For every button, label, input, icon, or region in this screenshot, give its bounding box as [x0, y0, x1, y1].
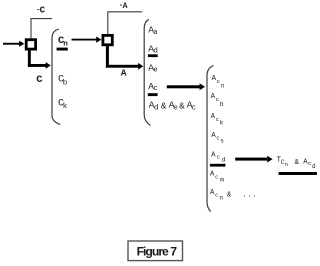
- node C_k: [58, 98, 68, 111]
- node A_c_b: [211, 93, 224, 108]
- svg-text:...: ...: [242, 192, 257, 200]
- svg-text:a: a: [153, 29, 157, 37]
- svg-text:c: c: [308, 160, 311, 167]
- node A_c_n: [212, 75, 225, 90]
- arrow into box 1: [3, 41, 24, 47]
- svg-text:s: s: [220, 137, 224, 144]
- node A_c_d (underlined): [210, 152, 226, 167]
- svg-text:&: &: [295, 159, 300, 167]
- bracket 1 (open paren): [52, 29, 60, 124]
- svg-text:&: &: [227, 191, 232, 199]
- svg-text:n: n: [285, 162, 288, 168]
- label -A: [119, 2, 128, 11]
- node A_c_k: [211, 113, 224, 127]
- svg-text:&: &: [161, 101, 167, 111]
- svg-text:c: c: [217, 78, 220, 85]
- node C_n (bold, underlined): [57, 35, 69, 51]
- svg-text:e: e: [153, 67, 157, 75]
- node A_c_s: [211, 132, 224, 144]
- node A_c (underlined): [148, 81, 158, 96]
- svg-text:k: k: [220, 119, 224, 126]
- bracket 3 (open paren): [207, 66, 213, 212]
- wire L from box 1 bottom with arrowhead into bracket 1, label C: [28, 50, 51, 69]
- svg-text:d: d: [153, 47, 158, 55]
- arrow from A_c_d to result: [235, 156, 272, 163]
- svg-text:Figure 7: Figure 7: [137, 245, 178, 259]
- svg-text:n: n: [221, 83, 225, 90]
- svg-text:n: n: [63, 40, 68, 48]
- wire L from box 2 bottom with arrowhead into bracket 2, label A: [106, 46, 143, 69]
- svg-text:c: c: [153, 85, 157, 93]
- svg-text:c: c: [192, 105, 196, 113]
- node A_d (underlined): [148, 43, 158, 57]
- svg-text:m: m: [220, 177, 224, 184]
- node C_b: [58, 75, 68, 88]
- svg-text:c: c: [216, 96, 219, 103]
- bracket 2 (open paren): [144, 19, 150, 125]
- box 1 (process node): [25, 38, 37, 50]
- result label T_C_n & A_c_d (underlined): [277, 157, 317, 175]
- svg-text:e: e: [174, 104, 178, 112]
- node A_e: [148, 62, 157, 74]
- arrow from bracket 2 to bracket 3: [167, 83, 205, 90]
- svg-text:A: A: [123, 2, 128, 11]
- figure caption box: [128, 241, 183, 261]
- svg-text:c: c: [215, 191, 218, 198]
- node A_c_m: [210, 171, 224, 184]
- svg-text:d: d: [312, 163, 316, 170]
- node A_c_n & ...: [210, 189, 257, 202]
- svg-text:c: c: [216, 116, 219, 123]
- svg-text:c: c: [217, 154, 220, 161]
- node A_a: [148, 25, 157, 37]
- svg-text:n: n: [219, 195, 223, 202]
- wire from box 2 top to -A label line: [108, 12, 142, 34]
- svg-text:d: d: [222, 156, 226, 163]
- svg-text:A: A: [121, 68, 127, 79]
- arrow from C_n into box 2: [72, 37, 102, 43]
- svg-text:A: A: [211, 152, 216, 160]
- label -C: [36, 6, 46, 16]
- wire from box 1 top to -C label line: [31, 19, 52, 39]
- box 2 (process node): [102, 34, 114, 46]
- label A_d & A_e & A_c: [149, 100, 196, 113]
- svg-text:d: d: [154, 104, 159, 112]
- svg-text:b: b: [220, 101, 224, 108]
- svg-text:C: C: [36, 74, 43, 86]
- svg-text:k: k: [63, 103, 68, 111]
- svg-text:b: b: [63, 79, 68, 87]
- svg-text:c: c: [215, 173, 218, 180]
- svg-text:C: C: [40, 6, 46, 16]
- svg-text:&: &: [179, 101, 185, 111]
